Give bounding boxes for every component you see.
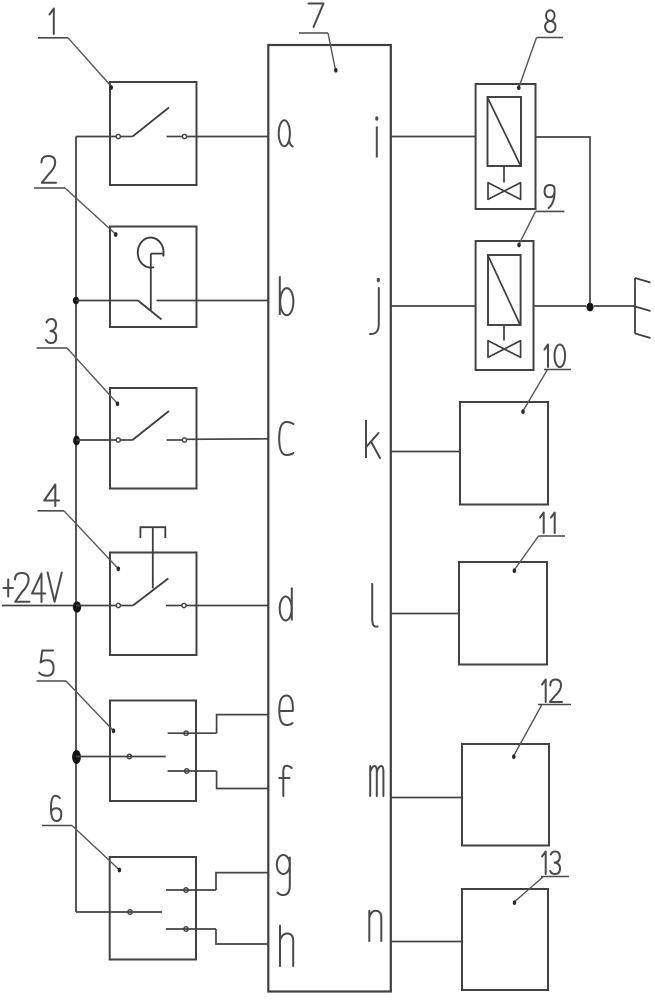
flow sensor symbol in box 2	[138, 238, 164, 311]
label 6 with leader	[42, 796, 121, 873]
pin label a	[279, 120, 293, 146]
pin label g	[277, 855, 290, 895]
switch S2 blade and wire	[76, 301, 268, 320]
actuator box 11 outline	[459, 562, 547, 665]
label 11 with leader	[513, 513, 565, 574]
switch S6 upper contact to pin g	[166, 873, 268, 893]
wire +24V feed	[2, 605, 76, 607]
switch box 5 outline	[110, 701, 196, 802]
wire pin n to box 13	[391, 941, 462, 943]
pin label f	[279, 766, 292, 796]
wire pin i to valve 8	[391, 136, 476, 138]
switch S1 contacts and blade	[76, 108, 268, 139]
switch S5 common contact	[76, 754, 166, 758]
connector plug symbol	[635, 278, 651, 338]
label 1 with leader	[38, 9, 113, 90]
solenoid valve box 8 outline	[476, 84, 536, 209]
pin label b	[280, 276, 294, 315]
junction node output	[586, 303, 593, 312]
switch S5 upper contact to pin e	[168, 715, 269, 736]
switch S6 lower contact to pin h	[166, 927, 268, 944]
controller block 7 outline	[268, 45, 391, 992]
solenoid valve box 9 outline	[476, 241, 534, 370]
label 8 with leader	[517, 10, 563, 90]
wire pin m to box 12	[391, 797, 462, 799]
switch S3 contacts and blade	[76, 411, 268, 442]
pin label k	[366, 420, 380, 458]
label 10 with leader	[521, 345, 571, 415]
label 13 with leader	[513, 852, 569, 906]
wire left +24V supply bus (vertical)	[75, 137, 77, 913]
switch S6 common contact	[76, 910, 162, 914]
label 7 with leader	[299, 4, 338, 73]
switch box 6 outline	[110, 857, 196, 960]
switch S5 lower contact to pin f	[168, 769, 269, 789]
switch box 1 outline	[110, 82, 197, 185]
label 12 with leader	[512, 680, 571, 760]
junction node b	[73, 297, 79, 305]
pin label e	[279, 696, 293, 726]
switch box 4 outline	[110, 553, 197, 656]
solenoid coil of valve 9	[488, 255, 521, 325]
solenoid coil of valve 8	[488, 97, 522, 166]
label +24V	[3, 573, 61, 603]
actuator box 12 outline	[462, 744, 549, 846]
valve symbol of valve 8	[488, 166, 521, 199]
label 2 with leader	[34, 156, 117, 237]
switch box 3 outline	[110, 388, 197, 489]
label 5 with leader	[37, 651, 116, 734]
pin label i	[375, 116, 378, 157]
actuator box 10 outline	[460, 402, 548, 505]
actuator box 13 outline	[462, 889, 548, 990]
wire output node to connector	[594, 305, 635, 307]
label 9 with leader	[517, 185, 564, 247]
wire pin j to valve 9	[391, 305, 476, 307]
junction node +24V/d	[73, 601, 81, 612]
pin label n	[369, 911, 381, 941]
pin label c	[279, 422, 293, 455]
label 4 with leader	[38, 485, 121, 572]
valve symbol of valve 9	[488, 325, 521, 357]
junction node e-f	[72, 750, 81, 764]
wire pin k to box 10	[391, 451, 460, 453]
switch S4 contacts and blade	[76, 578, 268, 607]
pin label j	[370, 278, 380, 334]
pin label h	[280, 926, 293, 966]
pin label d	[280, 588, 292, 621]
pin label l	[372, 584, 377, 627]
label 3 with leader	[37, 319, 120, 406]
switch box 2 outline	[110, 227, 197, 328]
pin label m	[370, 766, 383, 796]
pushbutton actuator of box 4	[140, 527, 165, 588]
wire valve 9 to output node	[534, 305, 587, 307]
junction node c	[73, 436, 80, 446]
wire pin l to box 11	[391, 613, 459, 615]
wire valve 8 to output node	[536, 137, 591, 303]
